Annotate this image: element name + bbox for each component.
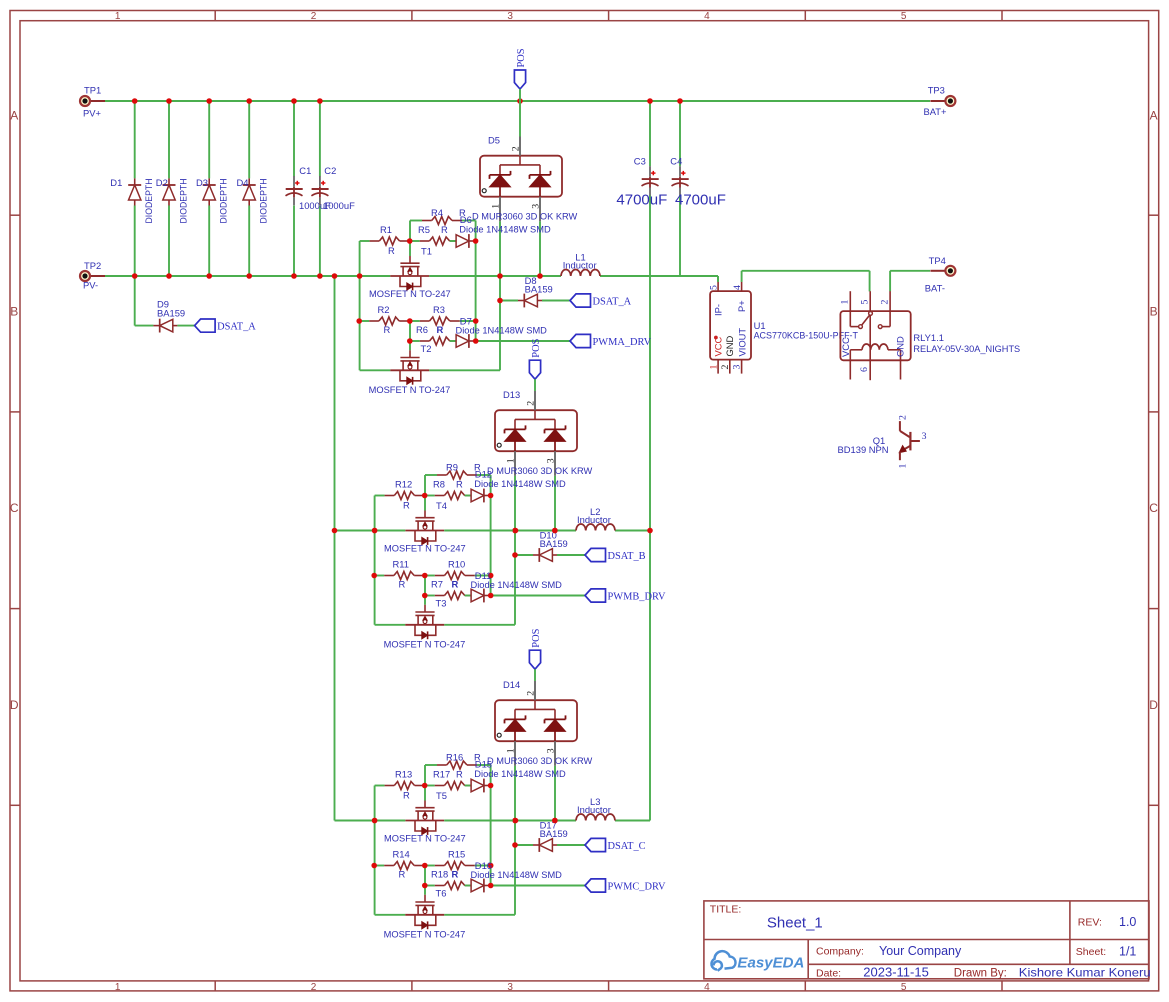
svg-text:BAT-: BAT- [925, 282, 945, 293]
svg-text:Inductor: Inductor [563, 260, 597, 271]
svg-text:5: 5 [709, 285, 720, 290]
svg-text:R16: R16 [446, 752, 463, 763]
svg-text:DIODEPTH: DIODEPTH [177, 179, 188, 224]
svg-text:T5: T5 [436, 790, 447, 801]
svg-text:3: 3 [922, 431, 927, 442]
svg-text:Date:: Date: [816, 968, 841, 980]
svg-text:RELAY-05V-30A_NIGHTS: RELAY-05V-30A_NIGHTS [913, 343, 1020, 354]
svg-text:PV-: PV- [83, 280, 98, 291]
svg-text:D MUR3060 3D OK KRW: D MUR3060 3D OK KRW [487, 755, 592, 766]
svg-text:C1: C1 [299, 165, 311, 176]
svg-text:R: R [452, 579, 459, 590]
svg-text:TP1: TP1 [84, 85, 101, 96]
svg-text:T1: T1 [421, 246, 432, 257]
svg-text:R11: R11 [393, 559, 410, 570]
svg-text:R: R [384, 324, 391, 335]
svg-text:R3: R3 [433, 304, 445, 315]
svg-text:R: R [437, 324, 444, 335]
svg-text:2: 2 [311, 982, 317, 993]
svg-text:4700uF: 4700uF [675, 192, 726, 209]
svg-text:R: R [456, 769, 463, 780]
svg-text:T2: T2 [421, 343, 432, 354]
svg-text:MOSFET N TO-247: MOSFET N TO-247 [369, 288, 451, 299]
svg-text:2: 2 [720, 365, 731, 370]
svg-text:PWMB_DRV: PWMB_DRV [608, 592, 667, 603]
svg-text:PWMA_DRV: PWMA_DRV [593, 337, 652, 348]
svg-text:Company:: Company: [816, 946, 864, 958]
svg-text:1: 1 [115, 11, 121, 22]
svg-text:5: 5 [860, 300, 871, 305]
svg-text:5: 5 [901, 11, 907, 22]
svg-text:Diode 1N4148W SMD: Diode 1N4148W SMD [474, 768, 566, 779]
svg-text:R9: R9 [446, 462, 458, 473]
svg-text:POS: POS [516, 48, 527, 67]
svg-text:DSAT_A: DSAT_A [593, 297, 632, 308]
svg-text:C: C [10, 501, 19, 515]
svg-text:B: B [1150, 305, 1158, 319]
svg-text:R10: R10 [448, 559, 465, 570]
svg-text:C: C [1149, 501, 1158, 515]
svg-text:PWMC_DRV: PWMC_DRV [608, 882, 667, 893]
svg-text:2: 2 [880, 300, 891, 305]
svg-text:D: D [1149, 698, 1158, 712]
svg-text:Your Company: Your Company [879, 944, 962, 958]
svg-text:B: B [10, 305, 18, 319]
svg-text:2: 2 [526, 691, 537, 696]
svg-text:VCC: VCC [713, 336, 724, 356]
svg-text:Diode 1N4148W SMD: Diode 1N4148W SMD [474, 478, 566, 489]
svg-text:BAT+: BAT+ [924, 106, 948, 117]
svg-text:BA159: BA159 [525, 283, 553, 294]
svg-text:MOSFET N TO-247: MOSFET N TO-247 [369, 384, 451, 395]
svg-text:R18: R18 [431, 869, 448, 880]
svg-text:D MUR3060 3D OK KRW: D MUR3060 3D OK KRW [487, 465, 592, 476]
svg-text:Inductor: Inductor [577, 514, 611, 525]
svg-text:Diode 1N4148W SMD: Diode 1N4148W SMD [456, 325, 548, 336]
svg-text:R: R [388, 245, 395, 256]
svg-text:MOSFET N TO-247: MOSFET N TO-247 [384, 543, 466, 554]
svg-text:D4: D4 [237, 177, 249, 188]
svg-text:DSAT_A: DSAT_A [217, 322, 256, 333]
svg-text:3: 3 [732, 365, 743, 370]
svg-text:DSAT_B: DSAT_B [608, 551, 646, 562]
svg-text:PV+: PV+ [83, 108, 102, 119]
svg-text:2: 2 [898, 415, 909, 420]
svg-text:Inductor: Inductor [577, 804, 611, 815]
svg-text:TP3: TP3 [928, 85, 945, 96]
svg-text:1/1: 1/1 [1119, 945, 1136, 959]
svg-text:R5: R5 [418, 224, 430, 235]
svg-text:1: 1 [898, 464, 909, 469]
svg-text:6: 6 [859, 367, 870, 372]
svg-text:BD139 NPN: BD139 NPN [838, 444, 889, 455]
svg-text:R: R [403, 790, 410, 801]
svg-text:R4: R4 [431, 207, 443, 218]
svg-text:3: 3 [531, 204, 542, 209]
svg-text:R17: R17 [433, 769, 450, 780]
svg-text:DIODEPTH: DIODEPTH [143, 179, 154, 224]
svg-text:1: 1 [491, 204, 502, 209]
svg-text:MOSFET N TO-247: MOSFET N TO-247 [384, 639, 466, 650]
svg-text:Sheet:: Sheet: [1076, 946, 1106, 958]
svg-text:3: 3 [546, 458, 557, 463]
svg-text:POS: POS [531, 628, 542, 647]
svg-text:R15: R15 [448, 849, 465, 860]
svg-text:3: 3 [507, 11, 513, 22]
svg-text:2: 2 [526, 401, 537, 406]
svg-text:1: 1 [506, 458, 517, 463]
svg-text:3: 3 [507, 982, 513, 993]
svg-text:C2: C2 [324, 165, 336, 176]
svg-text:RLY1.1: RLY1.1 [913, 332, 944, 343]
svg-text:VCC: VCC [840, 337, 851, 357]
svg-text:TP4: TP4 [929, 255, 946, 266]
svg-text:D: D [10, 698, 19, 712]
svg-text:R: R [456, 479, 463, 490]
svg-text:D3: D3 [196, 177, 208, 188]
svg-text:IP-: IP- [713, 304, 724, 316]
svg-text:D13: D13 [503, 389, 520, 400]
svg-text:R8: R8 [433, 479, 445, 490]
svg-text:A: A [1150, 109, 1158, 123]
svg-text:D2: D2 [156, 177, 168, 188]
svg-text:2: 2 [511, 146, 522, 151]
svg-text:BA159: BA159 [157, 307, 185, 318]
svg-text:2: 2 [311, 11, 317, 22]
svg-text:POS: POS [531, 338, 542, 357]
svg-text:4: 4 [732, 285, 743, 290]
svg-text:DIODEPTH: DIODEPTH [218, 179, 229, 224]
svg-text:1: 1 [506, 748, 517, 753]
svg-text:D MUR3060 3D OK KRW: D MUR3060 3D OK KRW [472, 211, 577, 222]
svg-text:R: R [399, 869, 406, 880]
svg-text:GND: GND [724, 335, 735, 356]
svg-text:R7: R7 [431, 579, 443, 590]
svg-text:1: 1 [840, 300, 851, 305]
svg-text:MOSFET N TO-247: MOSFET N TO-247 [384, 833, 466, 844]
svg-text:R: R [441, 224, 448, 235]
svg-text:Diode 1N4148W SMD: Diode 1N4148W SMD [459, 224, 551, 235]
svg-text:EasyEDA: EasyEDA [737, 955, 804, 972]
svg-text:T4: T4 [436, 500, 447, 511]
svg-text:4: 4 [704, 982, 710, 993]
svg-text:Diode 1N4148W SMD: Diode 1N4148W SMD [471, 869, 563, 880]
svg-text:REV:: REV: [1078, 917, 1102, 929]
svg-text:5: 5 [901, 982, 907, 993]
svg-text:3: 3 [546, 748, 557, 753]
svg-text:TITLE:: TITLE: [710, 904, 742, 916]
svg-text:R: R [403, 500, 410, 511]
svg-text:T6: T6 [436, 888, 447, 899]
svg-text:1: 1 [115, 982, 121, 993]
svg-text:R13: R13 [395, 769, 412, 780]
svg-text:C4: C4 [670, 155, 682, 166]
svg-text:Drawn By:: Drawn By: [954, 968, 1007, 980]
svg-text:D1: D1 [110, 177, 122, 188]
svg-text:R: R [399, 579, 406, 590]
svg-text:P+: P+ [736, 300, 747, 312]
svg-text:VIOUT: VIOUT [737, 328, 748, 357]
svg-text:D5: D5 [488, 135, 500, 146]
svg-text:R12: R12 [395, 479, 412, 490]
svg-text:Kishore Kumar Koneru: Kishore Kumar Koneru [1019, 966, 1151, 980]
svg-text:R1: R1 [380, 224, 392, 235]
svg-text:4: 4 [704, 11, 710, 22]
svg-text:MOSFET N TO-247: MOSFET N TO-247 [384, 929, 466, 940]
svg-text:T3: T3 [436, 598, 447, 609]
svg-text:BA159: BA159 [540, 538, 568, 549]
svg-text:Sheet_1: Sheet_1 [767, 915, 823, 932]
svg-text:C3: C3 [634, 155, 646, 166]
svg-text:1000uF: 1000uF [323, 200, 355, 211]
svg-text:R: R [452, 869, 459, 880]
svg-text:4700uF: 4700uF [616, 192, 667, 209]
svg-text:2023-11-15: 2023-11-15 [863, 965, 929, 980]
svg-text:BA159: BA159 [540, 828, 568, 839]
svg-text:GND: GND [895, 336, 906, 357]
svg-text:D14: D14 [503, 679, 520, 690]
svg-text:R14: R14 [393, 849, 410, 860]
svg-text:TP2: TP2 [84, 260, 101, 271]
svg-text:R2: R2 [378, 304, 390, 315]
svg-text:A: A [10, 109, 18, 123]
svg-text:R6: R6 [416, 324, 428, 335]
svg-text:DIODEPTH: DIODEPTH [258, 179, 269, 224]
svg-text:Diode 1N4148W SMD: Diode 1N4148W SMD [471, 579, 563, 590]
svg-text:DSAT_C: DSAT_C [608, 841, 646, 852]
svg-text:1.0: 1.0 [1119, 915, 1136, 929]
svg-text:1: 1 [709, 365, 720, 370]
